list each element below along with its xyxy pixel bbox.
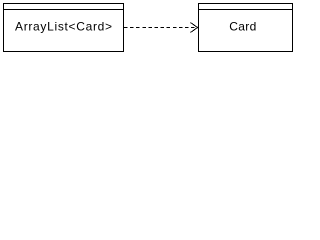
svg-text:Card: Card bbox=[229, 20, 256, 34]
svg-text:ArrayList<Card>: ArrayList<Card> bbox=[15, 20, 112, 34]
class box Card bbox=[199, 4, 293, 52]
stripe line of ArrayList<Card> box bbox=[3, 9, 124, 11]
stripe line of Card box bbox=[198, 9, 293, 11]
dashed dependency line bbox=[124, 27, 197, 29]
dependency arrowhead bbox=[191, 23, 198, 33]
class box ArrayList<Card> bbox=[4, 4, 124, 52]
